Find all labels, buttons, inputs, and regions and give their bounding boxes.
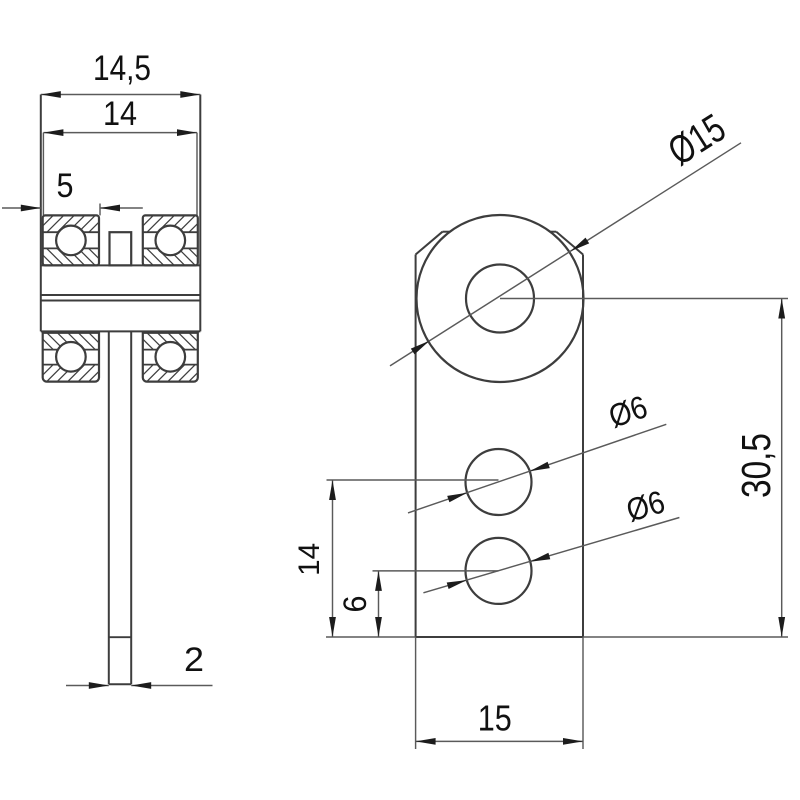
extension line 14 right — [196, 133, 198, 216]
svg-text:14: 14 — [293, 543, 326, 576]
mounting plate edge-on — [109, 331, 131, 684]
leader Ø6 upper — [408, 388, 666, 513]
hole Ø6 lower — [466, 538, 532, 604]
leader Ø6 lower — [423, 483, 679, 592]
dimension 14 (hole height) — [293, 480, 336, 637]
extension lines for 15 — [416, 637, 583, 749]
svg-text:30,5: 30,5 — [733, 433, 779, 498]
axle spacer block — [110, 232, 132, 265]
dimension 2 (plate thickness) — [66, 641, 213, 689]
dimension 5 — [2, 167, 143, 215]
svg-text:6: 6 — [337, 596, 373, 613]
bearing top-left — [43, 215, 99, 265]
body right edge / extension — [199, 95, 201, 332]
bearing top-right — [143, 215, 198, 265]
plate right edge — [582, 255, 584, 638]
extension line 14 left — [42, 133, 44, 216]
bearing bottom-left — [43, 333, 99, 382]
extension: upper hole centre for 14 — [327, 479, 499, 481]
svg-text:14: 14 — [103, 95, 137, 133]
svg-text:5: 5 — [57, 167, 74, 205]
body left edge / extension — [40, 95, 42, 332]
svg-text:14,5: 14,5 — [93, 49, 151, 88]
svg-text:15: 15 — [478, 698, 512, 739]
plate bottom edge with extensions — [326, 636, 788, 638]
plate left edge — [415, 255, 417, 638]
roller body lines — [41, 265, 201, 331]
roller outer circle Ø15 — [417, 215, 584, 382]
dimension 15 (plate width) — [416, 698, 583, 745]
roller bore circle — [466, 265, 534, 333]
svg-text:2: 2 — [184, 641, 204, 679]
dimension 30,5 — [733, 299, 785, 638]
bearing bottom-right — [143, 333, 198, 382]
dimension 14,5 — [41, 49, 201, 98]
dimension 6 — [337, 571, 382, 637]
plate top chamfers and top edge — [416, 232, 583, 255]
leader Ø15 — [390, 106, 741, 366]
hole Ø6 upper — [466, 449, 532, 515]
extension: lower hole centre for 6 — [373, 570, 499, 572]
extension: circle centre to 30,5 — [500, 298, 788, 300]
dimension 14 (width) — [43, 95, 197, 136]
